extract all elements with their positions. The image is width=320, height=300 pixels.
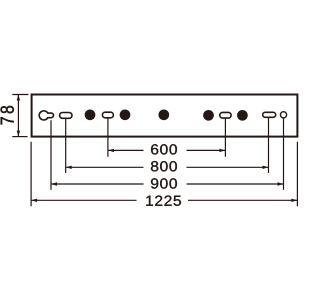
dimension line 1225: [31, 199, 297, 201]
label 600: [151, 144, 177, 154]
leader line from slot 3: [224, 118, 226, 157]
arrow 600 right: [219, 149, 225, 152]
knockout hole 2: [120, 109, 131, 120]
arrow 1225 left: [31, 199, 37, 202]
slot hole 2: [102, 112, 113, 118]
leader line from right slot: [268, 117, 270, 173]
arrow 600 left: [108, 149, 114, 152]
extension line 78 top: [12, 94, 28, 96]
knockout hole center: [158, 109, 169, 120]
extension line 78 bottom: [12, 136, 27, 138]
leader line from left slot: [65, 118, 67, 173]
label 800: [151, 161, 177, 171]
arrow 800 left: [66, 166, 72, 169]
knockout hole 1: [85, 109, 96, 120]
arrow 900 left: [51, 182, 57, 185]
dimension line 78: [17, 95, 19, 136]
leader line from keyhole: [50, 120, 52, 190]
pilot hole: [280, 112, 286, 118]
fixture body outline: [32, 95, 298, 137]
slot hole right: [263, 112, 276, 117]
keyhole mounting slot: [39, 111, 53, 120]
arrow 1225 right: [291, 199, 297, 202]
label 1225: [146, 196, 181, 206]
slot hole left: [60, 113, 72, 119]
leader line from slot 2: [107, 118, 109, 157]
slot hole 3: [220, 112, 231, 118]
label 78: [1, 106, 14, 124]
extension line left edge: [30, 142, 32, 207]
knockout hole 3: [203, 110, 214, 121]
leader line from pilot hole: [283, 118, 285, 190]
arrow 900 right: [278, 182, 284, 185]
dimension line 800: [66, 166, 269, 168]
dimension line 600: [108, 149, 225, 151]
arrow 78 top: [17, 95, 20, 101]
arrow 78 bottom: [17, 131, 20, 137]
label 900: [151, 178, 177, 188]
knockout hole 4: [237, 110, 248, 121]
dimension line 900: [51, 183, 284, 185]
arrow 800 right: [263, 166, 269, 169]
extension line right edge: [296, 142, 298, 207]
